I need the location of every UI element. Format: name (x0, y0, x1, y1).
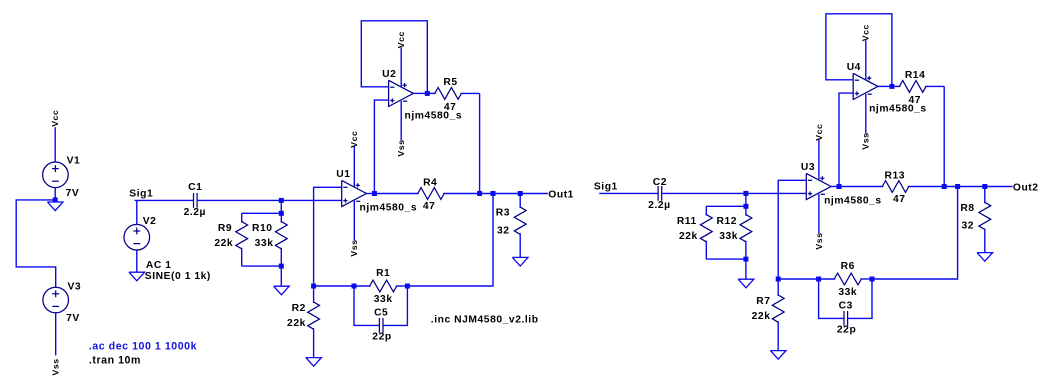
svg-text:U1: U1 (336, 169, 350, 180)
svg-text:V2: V2 (143, 216, 157, 227)
resistor R2 (308, 286, 320, 358)
junction U4 output (889, 84, 894, 89)
wire U2 unity feedback (361, 21, 427, 94)
wire U3 Vss pin (818, 194, 820, 234)
capacitor C1 (194, 193, 198, 208)
svg-text:R14: R14 (905, 70, 926, 81)
wire output bus (944, 186, 1012, 188)
svg-text:R4: R4 (423, 177, 437, 188)
wire U3 -in rail (778, 180, 806, 279)
wire V3 bottom (55, 313, 57, 356)
wire U4 Vss pin (865, 94, 867, 134)
svg-text:C2: C2 (653, 177, 667, 188)
wire U1 -in rail (314, 187, 342, 286)
wire down to R9/R10 (280, 200, 282, 213)
svg-text:47: 47 (423, 201, 436, 212)
svg-text:AC 1: AC 1 (146, 260, 172, 271)
wire U4 Vcc pin (865, 40, 867, 79)
junction out/R8 (982, 184, 987, 189)
svg-text:.ac dec 100 1 1000k: .ac dec 100 1 1000k (89, 341, 197, 353)
svg-text:R7: R7 (756, 296, 770, 307)
wire U1 out to U2 +in (374, 100, 388, 193)
svg-text:22k: 22k (287, 318, 306, 329)
op-amp U2 (389, 80, 414, 106)
wire V1 top (54, 127, 56, 162)
svg-text:R6: R6 (841, 261, 855, 272)
svg-text:32: 32 (962, 221, 975, 232)
svg-text:V3: V3 (68, 282, 82, 293)
wire arm to R9 top (242, 212, 282, 214)
junction U1 output (372, 191, 377, 196)
op-amp U4 (853, 73, 878, 99)
voltage source V3 (43, 287, 69, 313)
junction feedback/R2 (311, 284, 316, 289)
svg-text:C5: C5 (374, 308, 388, 319)
ground (R7) (770, 351, 786, 360)
svg-text:Vss: Vss (396, 139, 406, 156)
resistor R12 (740, 206, 752, 259)
svg-text:R1: R1 (376, 268, 390, 279)
svg-text:Sig1: Sig1 (594, 182, 618, 193)
svg-text:Vss: Vss (51, 358, 61, 375)
svg-text:V1: V1 (67, 156, 81, 167)
wire U1 Vss pin (353, 201, 355, 241)
junction V1 bottom node (53, 197, 58, 202)
wire down to R11/R12 (745, 193, 747, 206)
wire U3 Vcc pin (818, 139, 820, 180)
wire C5 branch right (384, 286, 408, 325)
wire U3 out to U4 +in (839, 93, 853, 186)
wire arm to R11 top (706, 205, 746, 207)
wire Sig1 to C2 (599, 192, 657, 194)
ground (supply midpoint) (47, 202, 63, 211)
svg-text:Vss: Vss (349, 239, 359, 256)
resistor R5 (427, 88, 479, 100)
svg-text:R13: R13 (885, 170, 906, 181)
resistor R3 (514, 194, 526, 258)
junction out/feedback (955, 184, 960, 189)
svg-text:C1: C1 (188, 182, 202, 193)
capacitor C5 (379, 318, 383, 333)
ground (R11/R12) (738, 279, 754, 288)
svg-text:Sig1: Sig1 (129, 189, 153, 200)
svg-text:Out2: Out2 (1013, 182, 1039, 193)
ground (R9/R10) (274, 286, 290, 295)
junction out/feedback (491, 191, 496, 196)
resistor R1 (354, 280, 407, 292)
wire U2 Vcc pin (400, 47, 402, 86)
wire feedback up (872, 187, 958, 280)
wire feedback to R1 (314, 285, 354, 287)
junction U2 output (425, 91, 430, 96)
wire feedback to R6 (778, 278, 818, 280)
resistor R4 (374, 188, 479, 200)
junction R1/C5 left (352, 284, 357, 289)
junction R1/C5 right (405, 284, 410, 289)
svg-text:33k: 33k (255, 238, 274, 249)
svg-text:Vss: Vss (861, 132, 871, 149)
svg-text:Vcc: Vcc (396, 31, 406, 48)
svg-text:njm4580_s: njm4580_s (360, 202, 418, 213)
junction signal/R9R10 (279, 198, 284, 203)
resistor R8 (979, 187, 991, 253)
wire C1 to op-amp U1 +in (198, 199, 342, 201)
voltage source V1 (43, 162, 69, 188)
svg-text:R8: R8 (960, 203, 974, 214)
junction out/R14 (942, 184, 947, 189)
resistor R6 (819, 273, 872, 285)
op-amp U3 (806, 173, 831, 199)
svg-text:SINE(0 1 1k): SINE(0 1 1k) (145, 271, 211, 282)
junction feedback/R7 (776, 277, 781, 282)
junction R10 top (279, 211, 284, 216)
junction U3 output (837, 184, 842, 189)
resistor R9 (236, 213, 248, 266)
svg-text:47: 47 (893, 194, 906, 205)
wire R14 down to out (943, 86, 945, 186)
svg-text:R2: R2 (292, 303, 306, 314)
svg-text:33k: 33k (719, 231, 738, 242)
svg-text:U3: U3 (801, 162, 815, 173)
wire U1 Vcc pin (353, 146, 355, 187)
svg-text:Vss: Vss (814, 232, 824, 249)
svg-text:Vcc: Vcc (814, 124, 824, 141)
wire V1 bottom stub (54, 188, 56, 202)
resistor R14 (892, 81, 944, 93)
wire C2 to op-amp U3 +in (662, 192, 806, 194)
svg-text:R10: R10 (252, 223, 273, 234)
junction signal/R11R12 (743, 191, 748, 196)
svg-text:22k: 22k (679, 231, 698, 242)
svg-text:33k: 33k (374, 294, 393, 305)
svg-text:C3: C3 (839, 301, 853, 312)
wire R5 down to out (479, 93, 481, 193)
wire U4 unity feedback (826, 14, 892, 87)
capacitor C3 (844, 311, 848, 326)
wire C3 branch left (819, 279, 844, 318)
junction out/R3 (518, 191, 523, 196)
wire Sig1 to C1 (135, 199, 193, 201)
wire V2 tap (136, 200, 138, 224)
wire C3 branch right (848, 279, 872, 318)
resistor R10 (275, 213, 287, 266)
svg-text:32: 32 (497, 225, 510, 236)
junction out/R5 (477, 191, 482, 196)
resistor R7 (772, 279, 784, 351)
wire R12 to ground (745, 259, 747, 279)
svg-text:7V: 7V (66, 313, 80, 324)
svg-text:U2: U2 (382, 69, 396, 80)
capacitor C2 (658, 186, 662, 201)
svg-text:Vcc: Vcc (861, 24, 871, 41)
svg-text:Vcc: Vcc (349, 131, 359, 148)
svg-text:Vcc: Vcc (50, 110, 60, 127)
svg-text:U4: U4 (847, 62, 861, 73)
svg-text:22k: 22k (752, 311, 771, 322)
svg-text:22p: 22p (372, 332, 391, 343)
junction R12 bottom (743, 257, 748, 262)
junction R6/C3 left (816, 277, 821, 282)
voltage source V2 (124, 224, 150, 250)
svg-text:22k: 22k (214, 238, 233, 249)
svg-text:47: 47 (909, 95, 922, 106)
ground (R3) (512, 257, 528, 266)
wire R10 to ground (280, 266, 282, 286)
wire feedback up (407, 194, 493, 287)
ground (R2) (306, 358, 322, 367)
svg-text:njm4580_s: njm4580_s (824, 195, 882, 206)
svg-text:R11: R11 (677, 216, 697, 227)
svg-text:2.2µ: 2.2µ (184, 207, 206, 218)
junction R6/C3 right (870, 277, 875, 282)
svg-text:.tran 10m: .tran 10m (89, 354, 141, 366)
svg-text:Out1: Out1 (548, 189, 574, 200)
ground (R8) (977, 253, 993, 262)
wire U1 output (366, 193, 374, 195)
ground (V2) (129, 272, 145, 281)
wire U3 output (831, 186, 839, 188)
op-amp U1 (342, 180, 367, 206)
wire U4 output stub (878, 85, 892, 87)
svg-text:.inc NJM4580_v2.lib: .inc NJM4580_v2.lib (431, 315, 539, 326)
svg-text:R12: R12 (717, 216, 738, 227)
wire C5 branch left (354, 286, 379, 325)
wire V2 to ground (136, 250, 138, 272)
junction R12 top (743, 204, 748, 209)
svg-text:R5: R5 (443, 77, 457, 88)
svg-text:22p: 22p (837, 325, 856, 336)
svg-text:7V: 7V (66, 188, 80, 199)
wire R9 bottom arm (242, 265, 282, 267)
svg-text:R3: R3 (496, 208, 510, 219)
junction R10 bottom (279, 264, 284, 269)
svg-text:47: 47 (444, 102, 457, 113)
svg-text:33k: 33k (838, 287, 857, 298)
wire U2 output stub (413, 92, 427, 94)
resistor R13 (839, 181, 944, 193)
wire R11 bottom arm (706, 258, 746, 260)
wire output bus (480, 193, 548, 195)
wire supply rail (16, 200, 56, 287)
resistor R11 (700, 206, 712, 259)
svg-text:R9: R9 (218, 223, 232, 234)
svg-text:2.2µ: 2.2µ (648, 200, 670, 211)
wire U2 Vss pin (400, 101, 402, 141)
